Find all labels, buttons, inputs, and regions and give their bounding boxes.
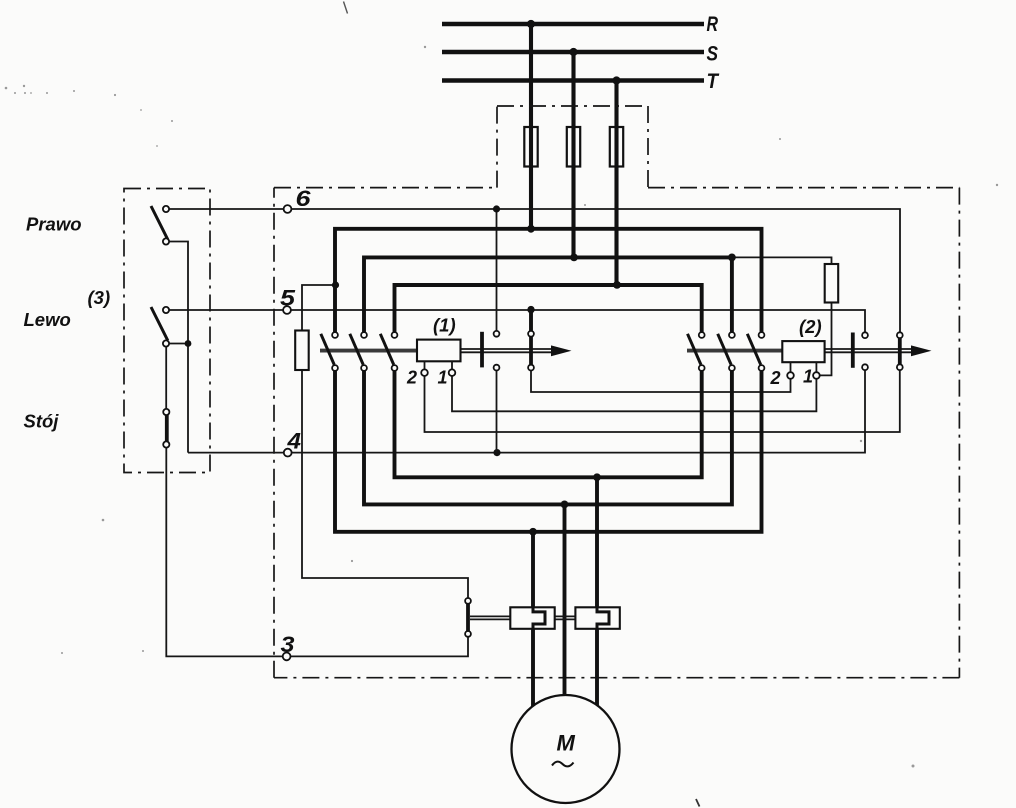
svg-text:Stój: Stój [24, 411, 60, 432]
overload relay heater 1 box [510, 607, 554, 629]
overload relay contact bar [466, 604, 470, 632]
bus line R [442, 22, 704, 27]
enclosure control station box [124, 189, 210, 473]
wire tap phase R [529, 24, 533, 229]
bus line T [442, 78, 704, 83]
motor M1 [512, 695, 620, 803]
contactor K1 bar contact terminals [528, 331, 534, 337]
node 6a [493, 205, 500, 212]
wire net 5 (Lewo to right aux) [166, 310, 865, 333]
contactor K1 main contact 1 blade [321, 334, 334, 365]
svg-text:(2): (2) [799, 316, 822, 337]
enclosure panel boundary top-right [648, 187, 959, 189]
contactor K2 main contact 3 terminals [759, 332, 765, 338]
node B fuse S [570, 254, 578, 262]
coil K2 [782, 341, 824, 362]
scan tick top [344, 2, 348, 14]
wire control station branch (Lewo lower) [166, 343, 188, 345]
contactor K2 break contact bar [851, 333, 855, 368]
fuse F1 [524, 127, 537, 167]
contactor K2 shaft right [825, 349, 912, 352]
wire net 4 (to right bar-contact) [188, 370, 865, 453]
svg-text:6: 6 [296, 186, 312, 211]
terminal 6 [284, 205, 292, 213]
contactor K1 break contact terminals [494, 331, 500, 337]
node R tap [527, 20, 535, 28]
enclosure fuse notch top [497, 105, 648, 107]
wire net 6 (Prawo to right aux) [166, 209, 900, 332]
wire contact 13-14 lower to node 4a [496, 371, 498, 453]
wire motor lead L1 [531, 532, 535, 706]
contactor K1 main contact 3 terminals [392, 332, 398, 338]
node control junction [185, 340, 192, 347]
overload relay contact terminals [465, 598, 471, 604]
contactor K1 bar contact [529, 332, 533, 368]
contactor K2 break contact terminals [862, 332, 868, 338]
coil K2 pin 2 [787, 372, 794, 379]
coil K1 pin stubs [425, 361, 453, 370]
wire vertical from node 6a to contact 13-14 [496, 209, 498, 331]
wire motor lead L3 [595, 477, 599, 706]
contactor K2 bar contact terminals [897, 332, 903, 338]
wire 5-net stub to K1 bar contact [529, 309, 533, 332]
contactor K2 main contact 2 terminals [729, 332, 735, 338]
wire motor lead L2 [563, 504, 567, 697]
contactor K1 main contact 2 terminals [361, 332, 367, 338]
wire branch to resistor R1 [302, 285, 335, 331]
wire phase bus D bottom [395, 371, 702, 478]
svg-text:S: S [707, 42, 719, 66]
contactor K1 actuator arrow [551, 345, 572, 356]
fuse F2 [567, 127, 580, 167]
wire phase bus B top [364, 257, 732, 332]
fuse F3 [610, 127, 623, 167]
contactor K1 break contact bar [480, 332, 484, 368]
wire phase bus C top [395, 285, 702, 332]
coil K2 pin stubs [791, 362, 817, 373]
pushbutton Lewo blade [151, 307, 168, 341]
svg-text:2: 2 [770, 368, 781, 388]
wire node B to resistor R2 [732, 257, 832, 264]
svg-text:M: M [557, 731, 576, 756]
contactor K1 shaft left [320, 349, 417, 353]
wire tap phase T [614, 81, 618, 285]
enclosure fuse notch left [496, 106, 498, 188]
wire coil K1 terminal 2 to right bar contact [425, 370, 900, 432]
coil K2 pin 1 [813, 372, 820, 379]
svg-text:(1): (1) [433, 315, 456, 336]
contactor K2 main contact 2 blade [718, 334, 731, 365]
enclosure panel boundary top-left [274, 187, 497, 189]
node branch on phase bus [332, 281, 339, 288]
wire phase bus F bottom [335, 371, 762, 532]
label AC tilde [552, 762, 574, 767]
terminal 4 [284, 449, 292, 457]
node S tap [569, 48, 577, 56]
contactor K1 main contact 2 blade [350, 334, 363, 365]
svg-text:T: T [707, 69, 720, 93]
enclosure panel boundary right [958, 188, 960, 678]
contactor K2 shaft left [687, 349, 782, 353]
contactor K2 main contact 1 blade [688, 334, 701, 365]
enclosure fuse notch right [647, 106, 649, 188]
node D motor L3 [593, 473, 601, 481]
overload relay heater 1 element [533, 607, 545, 629]
overload relay heater 2 element [597, 607, 609, 629]
contactor K2 actuator arrow [911, 345, 932, 356]
wire aux K1 to coil K2 terminal 2 [531, 371, 791, 393]
wire Lewo lower to Stoj button [165, 344, 167, 410]
overload relay heater 2 box [575, 607, 619, 629]
svg-text:R: R [707, 12, 719, 36]
wire resistor R2 to coil K2 terminal 1 [816, 303, 831, 376]
node A fuse R [527, 225, 535, 233]
node B right drop [728, 254, 736, 262]
coil K1 pin 1 [449, 369, 456, 376]
pushbutton Prawo terminals [163, 206, 169, 212]
contactor K2 bar contact [898, 332, 902, 368]
resistor R1 [295, 331, 309, 371]
node E motor L2 [561, 501, 569, 509]
pushbutton Lewo terminals [163, 307, 169, 313]
enclosure panel boundary bottom [274, 677, 959, 679]
wire coil K1 terminal 1 to coil K2 terminal 1 [452, 375, 816, 411]
contactor K2 main contact 1 terminals [699, 332, 705, 338]
svg-text:1: 1 [803, 367, 813, 387]
node 5a [527, 306, 534, 313]
wire phase bus E bottom [364, 371, 732, 505]
scan tick bottom [696, 799, 700, 807]
contactor K1 shaft right [461, 349, 553, 352]
node T tap [612, 76, 620, 84]
enclosure panel boundary left [273, 188, 275, 678]
wire phase bus A top [335, 229, 762, 333]
wire net 3 (Stoj to overload contact) [166, 445, 468, 657]
contactor K2 main contact 3 blade [747, 334, 760, 365]
contactor K1 main contact 1 terminals [332, 332, 338, 338]
svg-text:5: 5 [280, 286, 296, 311]
contactor K1 main contact 3 blade [380, 334, 393, 365]
pushbutton Prawo blade [151, 206, 168, 240]
coil K1 [417, 340, 461, 362]
svg-text:2: 2 [406, 368, 417, 388]
node F motor L1 [529, 528, 537, 536]
overload trip linkage [470, 616, 575, 619]
wire resistor R1 to overload contact [302, 370, 468, 598]
wire control station branch (Prawo lower) [166, 242, 188, 453]
resistor R2 [825, 264, 839, 303]
node C fuse T [613, 281, 621, 289]
svg-text:1: 1 [438, 368, 448, 388]
svg-text:4: 4 [286, 429, 301, 454]
pushbutton Stoj terminals [163, 409, 169, 415]
node 4a [493, 449, 500, 456]
terminal 3 [283, 653, 291, 661]
svg-text:(3): (3) [88, 287, 111, 308]
bus line S [442, 50, 704, 55]
terminal 5 [283, 306, 291, 314]
pushbutton Stoj bar [165, 414, 169, 442]
coil K1 pin 2 [421, 369, 428, 376]
svg-text:3: 3 [281, 632, 295, 657]
svg-text:Lewo: Lewo [24, 309, 71, 330]
svg-text:Prawo: Prawo [26, 214, 82, 235]
wire tap phase S [571, 52, 575, 257]
